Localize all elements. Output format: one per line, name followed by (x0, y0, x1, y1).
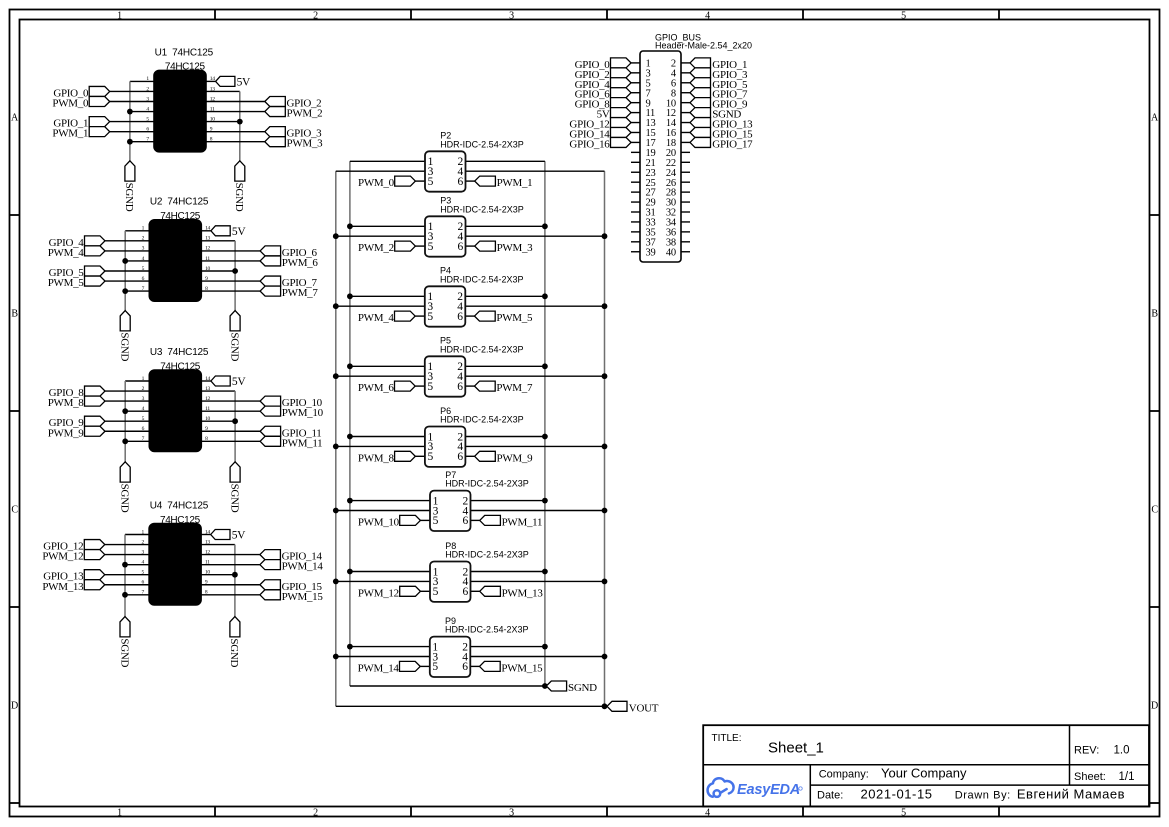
svg-text:14: 14 (205, 376, 210, 382)
ground port SGND below U4 left (120, 617, 130, 637)
wire U1 pin8 PWM_3 (206, 141, 265, 143)
svg-text:PWM_11: PWM_11 (282, 437, 323, 449)
junction U3 pin10 (232, 418, 238, 424)
wire P4 pin3 to VOUT bus (336, 305, 425, 307)
svg-text:2: 2 (313, 11, 318, 22)
svg-text:PWM_13: PWM_13 (502, 587, 544, 599)
svg-text:40: 40 (666, 247, 676, 258)
wire P9 pin4 to VOUT bus (470, 656, 604, 658)
junction P7 pin3 VOUT bus (333, 508, 339, 514)
svg-text:12: 12 (205, 246, 210, 252)
title block divider horizontal row1 (703, 764, 1149, 766)
svg-text:Drawn By:: Drawn By: (955, 790, 1011, 802)
svg-text:B: B (1151, 309, 1158, 320)
connector P9 HDR-IDC-2.54-2X3P body (430, 637, 471, 677)
svg-text:Your Company: Your Company (881, 766, 967, 781)
wire P5 pin6 PWM_7 (465, 385, 474, 387)
wire SGND inner-left bus vertical (349, 161, 351, 686)
svg-text:Sheet:: Sheet: (1074, 771, 1106, 783)
svg-text:5: 5 (428, 451, 434, 463)
wire U2 pin5 GPIO_5 (105, 270, 150, 272)
svg-text:REV:: REV: (1074, 745, 1099, 757)
op-amp buffer IC U1 74HC125 body (154, 71, 206, 152)
junction P4 pin1 SGND bus (347, 293, 353, 299)
port PWM_3 (475, 241, 496, 251)
svg-text:HDR-IDC-2.54-2X3P: HDR-IDC-2.54-2X3P (445, 550, 529, 560)
wire P6 pin6 PWM_9 (465, 455, 474, 457)
svg-text:5: 5 (432, 661, 438, 673)
junction U3 pin4 (122, 408, 128, 414)
port GPIO_4 (85, 236, 106, 246)
svg-text:12: 12 (205, 549, 210, 555)
svg-text:3: 3 (509, 11, 514, 22)
op-amp buffer IC U2 74HC125 body (150, 220, 202, 301)
port GPIO_6 (260, 246, 281, 256)
wire P3 pin1 to SGND bus (350, 225, 425, 227)
connector P3 HDR-IDC-2.54-2X3P body (425, 216, 466, 256)
svg-text:5: 5 (901, 808, 906, 819)
svg-text:PWM_14: PWM_14 (358, 662, 400, 674)
svg-text:SGND: SGND (233, 183, 245, 212)
junction P5 pin4 VOUT bus (602, 373, 608, 379)
wire P2 pin1 to SGND bus (350, 160, 425, 162)
port PWM_13 (480, 586, 501, 596)
wire U2 left SGND bus vertical (124, 231, 126, 311)
svg-text:PWM_12: PWM_12 (358, 587, 399, 599)
junction P3 pin4 VOUT bus (602, 233, 608, 239)
svg-text:11: 11 (210, 106, 215, 112)
junction U2 pin7 (122, 288, 128, 294)
ground port SGND below U4 right (230, 617, 240, 637)
junction U4 pin4 (122, 562, 128, 568)
frame column ticks bottom (215, 807, 999, 817)
svg-text:HDR-IDC-2.54-2X3P: HDR-IDC-2.54-2X3P (440, 139, 524, 149)
connector P4 HDR-IDC-2.54-2X3P body (425, 286, 466, 326)
wire P7 pin2 to SGND bus (471, 500, 545, 502)
svg-text:39: 39 (646, 247, 656, 258)
EasyEDA logo cloud icon (708, 778, 734, 797)
wire U3 pin4 to left SGND bus (125, 410, 149, 412)
junction P5 pin1 SGND bus (347, 363, 353, 369)
wire U2 pin10 to right SGND bus (201, 270, 235, 272)
svg-text:PWM_12: PWM_12 (42, 551, 83, 563)
svg-text:PWM_3: PWM_3 (497, 242, 534, 254)
svg-text:PWM_10: PWM_10 (282, 407, 324, 419)
svg-text:14: 14 (205, 529, 210, 535)
port SGND at GPIO_BUS pin 12 (690, 108, 711, 118)
wire U2 pin7 GND to left SGND bus (125, 290, 149, 292)
junction P9 pin2 SGND bus (542, 644, 548, 650)
frame column numbers top (117, 11, 906, 22)
wire U2 pin12 GPIO_6 (201, 250, 260, 252)
svg-text:PWM_9: PWM_9 (497, 452, 534, 464)
port GPIO_15 (260, 580, 281, 590)
wire P4 pin4 to VOUT bus (465, 305, 604, 307)
ground port SGND below U1 right (235, 161, 245, 181)
svg-text:PWM_7: PWM_7 (282, 287, 319, 299)
wire P7 pin6 PWM_11 (471, 519, 480, 521)
svg-text:SGND: SGND (568, 682, 597, 694)
port PWM_12 (400, 586, 421, 596)
svg-text:PWM_4: PWM_4 (48, 247, 85, 259)
junction P4 pin3 VOUT bus (333, 303, 339, 309)
wire P4 pin1 to SGND bus (350, 295, 425, 297)
junction P7 pin1 SGND bus (347, 498, 353, 504)
wire U4 pin9 GPIO_15 (201, 584, 260, 586)
svg-text:SGND: SGND (119, 484, 131, 513)
wire SGND inner-right bus vertical (544, 161, 546, 686)
port PWM_4 (85, 246, 106, 256)
svg-text:13: 13 (205, 236, 210, 242)
svg-text:U4 74HC125: U4 74HC125 (150, 500, 209, 511)
wire P8 pin6 PWM_13 (471, 590, 480, 592)
ground port SGND below U1 left (125, 161, 135, 181)
svg-text:HDR-IDC-2.54-2X3P: HDR-IDC-2.54-2X3P (440, 274, 524, 284)
frame row letters right (1151, 113, 1159, 712)
port PWM_11 (480, 515, 501, 525)
U2 left pin numbers 1-7 (142, 226, 145, 292)
wire P8 pin3 to VOUT bus (336, 580, 430, 582)
wire P3 pin4 to VOUT bus (466, 235, 605, 237)
svg-text:C: C (11, 505, 18, 516)
junction U1 pin10 (237, 119, 243, 125)
svg-text:PWM_5: PWM_5 (48, 277, 85, 289)
junction P4 pin2 SGND bus (542, 293, 548, 299)
wire P8 pin1 to SGND bus (350, 571, 430, 573)
svg-text:PWM_13: PWM_13 (42, 581, 84, 593)
wire U2 pin6 PWM_5 (105, 280, 150, 282)
svg-text:HDR-IDC-2.54-2X3P: HDR-IDC-2.54-2X3P (440, 344, 524, 354)
svg-text:PWM_15: PWM_15 (501, 662, 543, 674)
svg-text:PWM_11: PWM_11 (502, 516, 543, 528)
wire U3 pin10 to right SGND bus (201, 420, 235, 422)
port PWM_6 (395, 381, 416, 391)
svg-text:PWM_0: PWM_0 (358, 177, 395, 189)
wire U2 right SGND bus vertical (234, 241, 236, 311)
svg-text:EasyEDA: EasyEDA (737, 782, 800, 798)
P2 pin numbers (428, 156, 464, 188)
junction SGND rail / inner-right bus (542, 683, 548, 689)
wire U2 pin9 GPIO_7 (201, 280, 260, 282)
wire P4 pin2 to SGND bus (465, 295, 545, 297)
connector P5 HDR-IDC-2.54-2X3P body (425, 356, 466, 396)
svg-text:6: 6 (462, 586, 468, 598)
svg-text:11: 11 (205, 406, 210, 412)
junction P3 pin1 SGND bus (347, 223, 353, 229)
port GPIO_7 at GPIO_BUS pin 8 (690, 88, 711, 98)
port GPIO_13 at GPIO_BUS pin 14 (690, 118, 711, 128)
wire P7 pin4 to VOUT bus (471, 510, 605, 512)
wire P3 pin2 to SGND bus (466, 225, 545, 227)
frame column numbers bottom (117, 808, 906, 819)
wire U4 pin11 PWM_14 (201, 564, 260, 566)
U3 left pin numbers 1-7 (142, 376, 145, 442)
P9 pin numbers (432, 641, 468, 673)
junction P4 pin4 VOUT bus (602, 303, 608, 309)
junction P9 pin4 VOUT bus (602, 654, 608, 660)
port PWM_11 (260, 436, 281, 446)
port GPIO_0 (89, 86, 110, 96)
P7 pin numbers (433, 495, 469, 527)
wire P8 pin4 to VOUT bus (471, 580, 605, 582)
svg-text:10: 10 (210, 116, 215, 122)
port PWM_13 (84, 580, 105, 590)
port PWM_7 (475, 381, 496, 391)
port GPIO_5 (85, 266, 106, 276)
port PWM_9 (475, 451, 496, 461)
svg-text:C: C (1151, 505, 1158, 516)
svg-text:13: 13 (205, 539, 210, 545)
svg-text:11: 11 (205, 559, 210, 565)
port GPIO_8 at GPIO_BUS pin 9 (611, 98, 632, 108)
wire P3 pin6 PWM_3 (466, 245, 475, 247)
svg-text:10: 10 (205, 570, 210, 576)
junction P9 pin1 SGND bus (347, 644, 353, 650)
svg-text:SGND: SGND (119, 332, 131, 361)
junction U2 pin4 (122, 258, 128, 264)
port SGND bottom (546, 681, 566, 691)
port GPIO_1 at GPIO_BUS pin 2 (690, 58, 711, 68)
wire U3 pin3 PWM_8 (105, 400, 150, 402)
wire P7 pin3 to VOUT bus (336, 510, 430, 512)
port PWM_14 (400, 661, 421, 671)
port PWM_0 (89, 97, 110, 107)
junction P8 pin1 SGND bus (347, 569, 353, 575)
wire U4 right SGND bus vertical (234, 545, 236, 617)
title block divider vertical logo cell (809, 765, 811, 807)
wire U3 pin2 GPIO_8 (105, 390, 150, 392)
svg-text:5: 5 (427, 381, 433, 393)
port GPIO_9 (85, 416, 106, 426)
svg-text:PWM_2: PWM_2 (358, 242, 394, 254)
wire U2 pin4 to left SGND bus (125, 260, 149, 262)
svg-text:1: 1 (117, 11, 122, 22)
title block divider vertical REV column (1069, 725, 1071, 785)
wire P6 pin5 PWM_8 (415, 455, 425, 457)
frame row ticks left (10, 215, 20, 803)
svg-text:2: 2 (313, 808, 318, 819)
junction P8 pin2 SGND bus (542, 569, 548, 575)
svg-text:5: 5 (433, 586, 439, 598)
svg-text:Company:: Company: (819, 769, 869, 781)
port PWM_3 (265, 137, 286, 147)
wire U3 pin8 PWM_11 (201, 440, 260, 442)
svg-text:1: 1 (117, 808, 122, 819)
wire U4 left SGND bus vertical (124, 535, 126, 617)
svg-text:HDR-IDC-2.54-2X3P: HDR-IDC-2.54-2X3P (445, 479, 529, 489)
port PWM_6 (260, 256, 281, 266)
svg-text:GPIO_16: GPIO_16 (569, 138, 610, 150)
svg-text:13: 13 (205, 386, 210, 392)
svg-text:74HC125: 74HC125 (165, 62, 206, 73)
junction P6 pin1 SGND bus (347, 434, 353, 440)
wire U4 pin1 to left SGND bus (125, 534, 149, 536)
svg-text:PWM_3: PWM_3 (287, 138, 324, 150)
junction U1 pin4 (127, 109, 133, 115)
U2 right pin numbers 14-8 (205, 226, 210, 292)
wire U1 right SGND bus vertical (239, 91, 241, 160)
U1 left pin numbers 1-7 (146, 76, 149, 142)
svg-text:10: 10 (205, 416, 210, 422)
port PWM_5 (475, 311, 496, 321)
port PWM_14 (260, 560, 281, 570)
frame row letters left (11, 113, 19, 712)
wire U3 pin14 VCC to 5V port (201, 380, 211, 382)
wire U1 pin13 to right SGND bus (206, 90, 240, 92)
port GPIO_5 at GPIO_BUS pin 6 (690, 78, 711, 88)
svg-text:6: 6 (457, 451, 463, 463)
wire P9 pin6 PWM_15 (470, 665, 479, 667)
wire U3 pin6 PWM_9 (105, 430, 150, 432)
P6 pin numbers (428, 431, 464, 463)
port PWM_15 (480, 661, 501, 671)
port PWM_12 (84, 550, 105, 560)
svg-text:PWM_6: PWM_6 (282, 257, 319, 269)
svg-text:SGND: SGND (123, 183, 135, 212)
junction P5 pin2 SGND bus (542, 363, 548, 369)
wire U3 pin7 GND to left SGND bus (125, 440, 149, 442)
wire U4 pin6 PWM_13 (105, 584, 150, 586)
port PWM_10 (400, 515, 421, 525)
wire U4 pin3 PWM_12 (105, 554, 150, 556)
wire U2 pin11 PWM_6 (201, 260, 260, 262)
port PWM_2 (265, 107, 286, 117)
port GPIO_1 (89, 117, 110, 127)
svg-text:TITLE:: TITLE: (712, 733, 742, 744)
wire U4 pin14 VCC to 5V port (201, 534, 211, 536)
wire U3 pin13 to right SGND bus (201, 390, 235, 392)
svg-text:PWM_2: PWM_2 (287, 108, 323, 120)
wire U1 pin10 to right SGND bus (206, 121, 240, 123)
GPIO_BUS pin numbers 1-40 (646, 59, 677, 259)
port GPIO_13 (84, 570, 105, 580)
port PWM_8 (85, 396, 106, 406)
ground port SGND below U3 right (230, 462, 240, 482)
connector GPIO_BUS pin stubs (631, 63, 690, 252)
wire VOUT bottom rail (336, 705, 607, 707)
wire U1 pin2 GPIO_0 (110, 90, 155, 92)
port GPIO_3 (265, 127, 286, 137)
svg-text:PWM_15: PWM_15 (282, 591, 324, 603)
svg-text:5V: 5V (237, 77, 251, 89)
wire P6 pin1 to SGND bus (350, 436, 425, 438)
svg-text:PWM_5: PWM_5 (496, 312, 533, 324)
svg-text:PWM_7: PWM_7 (496, 382, 533, 394)
svg-text:74HC125: 74HC125 (160, 211, 201, 222)
wire P3 pin5 PWM_2 (415, 245, 425, 247)
junction P6 pin4 VOUT bus (602, 444, 608, 450)
wire U1 pin3 PWM_0 (110, 101, 155, 103)
svg-text:PWM_8: PWM_8 (358, 452, 395, 464)
wire P6 pin4 to VOUT bus (465, 445, 604, 447)
wire U4 pin5 GPIO_13 (105, 574, 150, 576)
port GPIO_9 at GPIO_BUS pin 10 (690, 98, 711, 108)
svg-text:5V: 5V (232, 530, 246, 542)
svg-text:14: 14 (205, 226, 210, 232)
svg-text:5: 5 (427, 311, 433, 323)
wire U1 pin1 to left SGND bus (130, 80, 154, 82)
port PWM_10 (260, 406, 281, 416)
port PWM_8 (395, 451, 416, 461)
junction P7 pin2 SGND bus (542, 498, 548, 504)
svg-text:1/1: 1/1 (1119, 771, 1135, 783)
port GPIO_2 (265, 97, 286, 107)
wire U1 pin7 GND to left SGND bus (130, 141, 154, 143)
wire P2 pin6 PWM_1 (466, 180, 475, 182)
svg-text:PWM_8: PWM_8 (48, 397, 85, 409)
wire U1 left SGND bus vertical (129, 81, 131, 160)
wire P7 pin5 PWM_10 (420, 519, 430, 521)
svg-text:12: 12 (210, 96, 215, 102)
P3 pin numbers (428, 221, 464, 253)
wire U1 pin11 PWM_2 (206, 111, 265, 113)
port GPIO_8 (85, 386, 106, 396)
port PWM_15 (260, 590, 281, 600)
power port 5V U2 (211, 226, 230, 236)
junction P3 pin2 SGND bus (542, 223, 548, 229)
wire P8 pin5 PWM_12 (420, 590, 430, 592)
ground port SGND below U3 left (120, 462, 130, 482)
svg-text:A: A (11, 113, 19, 124)
port GPIO_0 at GPIO_BUS pin 1 (611, 58, 632, 68)
power port 5V U4 (211, 530, 230, 540)
svg-text:5: 5 (428, 241, 434, 253)
wire U4 pin13 to right SGND bus (201, 544, 235, 546)
svg-text:D: D (1151, 701, 1158, 712)
wire U2 pin8 PWM_7 (201, 290, 260, 292)
port GPIO_14 (260, 550, 281, 560)
port GPIO_6 at GPIO_BUS pin 7 (611, 88, 632, 98)
wire U2 pin13 to right SGND bus (201, 240, 235, 242)
svg-text:U3 74HC125: U3 74HC125 (150, 347, 209, 358)
port PWM_1 (89, 127, 110, 137)
P4 pin numbers (427, 291, 463, 323)
svg-text:PWM_9: PWM_9 (48, 427, 85, 439)
port GPIO_16 at GPIO_BUS pin 17 (611, 137, 632, 147)
wire U3 pin12 GPIO_10 (201, 400, 260, 402)
svg-text:12: 12 (205, 396, 210, 402)
svg-text:6: 6 (462, 661, 468, 673)
svg-text:1.0: 1.0 (1114, 745, 1130, 757)
svg-text:14: 14 (210, 76, 215, 82)
port GPIO_7 (260, 276, 281, 286)
svg-text:5: 5 (428, 176, 434, 188)
wire U4 pin10 to right SGND bus (201, 574, 235, 576)
wire U2 pin3 PWM_4 (105, 250, 150, 252)
connector GPIO_BUS Header-Male-2.54_2x20 body (640, 51, 681, 262)
port VOUT bottom (607, 701, 627, 711)
svg-text:Header-Male-2.54_2x20: Header-Male-2.54_2x20 (655, 41, 752, 51)
port GPIO_14 at GPIO_BUS pin 15 (611, 127, 632, 137)
junction VOUT rail / far-right bus (602, 703, 608, 709)
wire U4 pin2 GPIO_12 (105, 544, 150, 546)
port PWM_1 (475, 176, 496, 186)
svg-text:11: 11 (205, 256, 210, 262)
connector P8 HDR-IDC-2.54-2X3P body (430, 562, 471, 602)
U1 right pin numbers 14-8 (210, 76, 215, 142)
wire U3 pin11 PWM_10 (201, 410, 260, 412)
connector P6 HDR-IDC-2.54-2X3P body (425, 427, 466, 467)
svg-text:GPIO_17: GPIO_17 (712, 138, 753, 150)
wire P6 pin3 to VOUT bus (336, 445, 425, 447)
port GPIO_4 at GPIO_BUS pin 5 (611, 78, 632, 88)
title block outer box (703, 725, 1149, 806)
junction U1 pin7 (127, 139, 133, 145)
wire U1 pin9 GPIO_3 (206, 131, 265, 133)
port GPIO_3 at GPIO_BUS pin 4 (690, 68, 711, 78)
wire P9 pin2 to SGND bus (470, 646, 545, 648)
junction U4 pin10 (232, 572, 238, 578)
